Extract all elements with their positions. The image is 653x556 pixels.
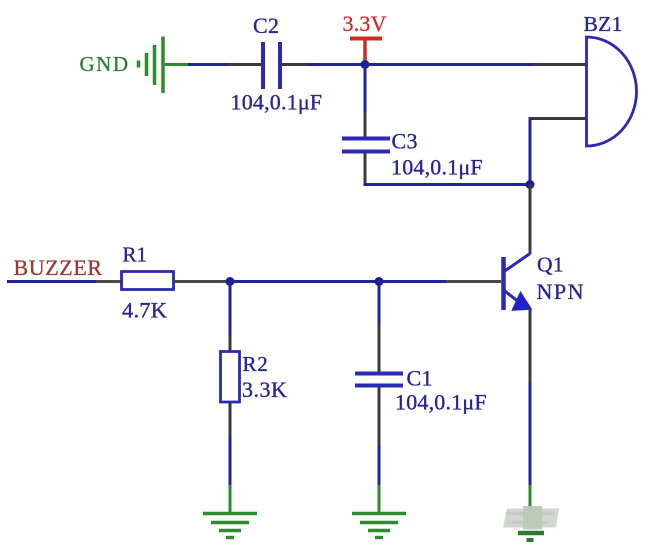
watermark blob over emitter ground: [503, 506, 559, 530]
svg-text:C3: C3: [392, 129, 418, 154]
svg-text:R2: R2: [243, 352, 269, 376]
ground symbol under C1: [352, 485, 406, 538]
svg-text:104,0.1μF: 104,0.1μF: [391, 155, 483, 180]
svg-text:NPN: NPN: [537, 279, 586, 304]
wire C3 corner to collector node (blue): [365, 183, 530, 185]
wire node to node (blue): [230, 280, 379, 283]
svg-text:Q1: Q1: [537, 253, 564, 277]
wire emitter to ground (blue): [529, 382, 532, 489]
svg-text:3.3V: 3.3V: [343, 11, 387, 36]
wire node to base (blue part): [379, 280, 446, 283]
capacitor C2: [263, 42, 280, 89]
resistor R1: [122, 272, 174, 290]
wire buzzer lead down to C3 node (blue): [529, 119, 532, 185]
wire node down to collector (dark): [529, 185, 532, 255]
wire C1 to ground (dark): [378, 387, 381, 445]
wire node to buzzer (dark part): [533, 63, 587, 66]
wire C2 to node (blue part): [307, 63, 365, 66]
svg-text:BZ1: BZ1: [584, 12, 623, 36]
svg-text:GND: GND: [80, 52, 130, 76]
node junction at collector branch: [526, 180, 535, 189]
node junction at R2 branch: [226, 277, 235, 286]
wire node to buzzer (blue part): [365, 63, 533, 66]
wire C3 down to corner (dark): [364, 153, 367, 183]
svg-text:R1: R1: [123, 243, 148, 267]
capacitor C1: [355, 374, 403, 386]
transistor Q1: [504, 254, 532, 311]
svg-text:C1: C1: [407, 366, 433, 391]
wire left to R1 (dark): [7, 280, 96, 283]
node junction at C1 branch: [375, 277, 384, 286]
node junction at 3.3V rail: [361, 60, 370, 69]
ground symbol under emitter: [506, 485, 554, 540]
resistor R2: [221, 352, 240, 403]
wire to R1 (dark part): [96, 280, 122, 283]
wire buzzer lower lead (dark): [530, 119, 586, 121]
svg-text:3.3K: 3.3K: [242, 377, 287, 402]
power symbol 3.3V: [350, 39, 382, 65]
wire C1 branch down (dark): [378, 325, 381, 372]
buzzer BZ1: [587, 37, 637, 146]
ground symbol under R2: [203, 485, 257, 538]
wire node down to C3 (blue part): [364, 65, 367, 113]
wire GND to C2 (blue part): [188, 63, 227, 66]
wire GND to C2 (dark part): [227, 63, 261, 66]
wire emitter down (dark): [529, 308, 532, 382]
wire node to base (dark part): [446, 280, 501, 283]
wire R2 branch down (blue): [229, 282, 232, 336]
wire R2 branch down (dark): [229, 335, 232, 352]
svg-text:4.7K: 4.7K: [122, 298, 168, 323]
wire R1 to node (dark): [174, 280, 230, 283]
wire R2 to ground (blue): [229, 436, 232, 489]
wire node down to C3 (dark part): [364, 112, 367, 137]
capacitor C3: [342, 139, 390, 152]
svg-text:104,0.1μF: 104,0.1μF: [231, 90, 323, 115]
svg-text:104,0.1μF: 104,0.1μF: [395, 390, 487, 415]
wire C1 branch down (blue): [378, 282, 381, 326]
svg-text:BUZZER: BUZZER: [14, 255, 103, 280]
wire R2 to ground (dark): [229, 402, 232, 436]
svg-text:C2: C2: [253, 13, 279, 38]
wire C2 to node (dark part): [282, 63, 307, 66]
power ground symbol (left, horizontal): [139, 37, 190, 94]
wire C1 to ground (blue): [378, 445, 381, 489]
